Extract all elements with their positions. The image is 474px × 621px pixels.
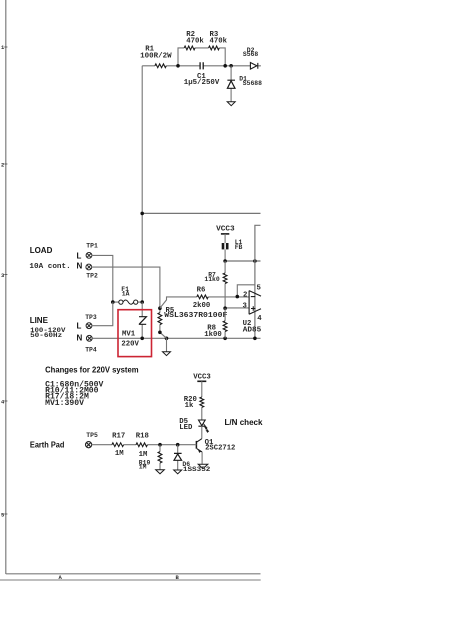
svg-text:R6: R6 bbox=[197, 286, 206, 294]
varistor MV1 bbox=[141, 302, 143, 338]
svg-text:MV1:390V: MV1:390V bbox=[45, 399, 84, 408]
border row tick 4 bbox=[4, 400, 7, 402]
border bottom inner line bbox=[6, 573, 261, 575]
svg-text:1M: 1M bbox=[139, 464, 147, 471]
svg-text:Changes for 220V system: Changes for 220V system bbox=[45, 365, 139, 374]
node dots rail261 bbox=[223, 259, 256, 263]
wire L1 to rail261 bbox=[224, 249, 226, 261]
svg-text:1A: 1A bbox=[122, 290, 130, 297]
svg-text:TP1: TP1 bbox=[86, 242, 98, 249]
diode D1 with wire bbox=[230, 66, 232, 102]
svg-text:1µ5/250V: 1µ5/250V bbox=[184, 79, 220, 87]
svg-text:10A cont.: 10A cont. bbox=[29, 263, 70, 271]
wire R2R3 upper branch bbox=[178, 48, 225, 66]
LED D5 bbox=[198, 420, 205, 426]
svg-text:100R/2W: 100R/2W bbox=[140, 53, 172, 61]
svg-text:220V: 220V bbox=[121, 341, 139, 349]
svg-text:470k: 470k bbox=[186, 37, 204, 45]
ground under D6 bbox=[174, 470, 182, 474]
svg-text:LED: LED bbox=[179, 424, 193, 432]
terminal TP2 bbox=[86, 264, 92, 270]
power VCC3 (lower) bbox=[197, 380, 206, 382]
svg-text:VCC3: VCC3 bbox=[193, 373, 211, 381]
svg-text:4: 4 bbox=[257, 315, 262, 323]
svg-text:470k: 470k bbox=[210, 37, 228, 45]
resistor R20 with leads bbox=[201, 381, 203, 420]
fuse F1 bbox=[113, 301, 142, 303]
wire left vertical from R1 down to fuse bbox=[141, 66, 143, 302]
emitter arrow Q1 bbox=[198, 450, 201, 453]
svg-text:R18: R18 bbox=[136, 432, 149, 440]
svg-text:Earth Pad: Earth Pad bbox=[30, 441, 65, 450]
border row tick 2 bbox=[4, 163, 7, 165]
node dot feedback bbox=[236, 295, 240, 299]
svg-text:5: 5 bbox=[257, 285, 261, 293]
resistor R19 with leads bbox=[159, 445, 161, 470]
svg-text:TP2: TP2 bbox=[86, 272, 98, 279]
terminal TP3 bbox=[86, 323, 92, 329]
wire main top rail bbox=[142, 65, 261, 67]
wire pin3 bbox=[225, 307, 249, 309]
resistor R18 bbox=[136, 443, 147, 447]
resistor R6 bbox=[197, 295, 208, 299]
wire TP3 up to fuse bbox=[92, 302, 113, 326]
wire N rail y338 bbox=[92, 337, 260, 339]
svg-text:N: N bbox=[77, 333, 83, 342]
border row tick 5 bbox=[4, 513, 7, 515]
svg-text:1M: 1M bbox=[139, 451, 148, 459]
node junction dots top rail bbox=[176, 64, 233, 68]
svg-text:TP3: TP3 bbox=[85, 314, 97, 321]
power VCC3 (upper) bbox=[221, 233, 229, 235]
wire Q1 emitter to ground bbox=[201, 452, 203, 464]
resistor R1 bbox=[155, 64, 166, 68]
svg-text:LINE: LINE bbox=[30, 316, 49, 325]
svg-text:VCC3: VCC3 bbox=[216, 225, 235, 233]
svg-text:TP4: TP4 bbox=[85, 346, 97, 353]
red highlight box 220V bbox=[118, 310, 152, 357]
node dots N rail bbox=[140, 337, 256, 341]
svg-text:2SC2712: 2SC2712 bbox=[205, 444, 235, 452]
wire R6 net / pin2 bbox=[160, 297, 249, 308]
wire VCC3 to L1 bbox=[224, 234, 226, 243]
border row tick 3 bbox=[4, 274, 7, 276]
shunt resistor R5 bbox=[160, 308, 167, 338]
svg-text:3: 3 bbox=[243, 302, 248, 310]
svg-text:1SS352: 1SS352 bbox=[183, 466, 211, 473]
svg-text:LOAD: LOAD bbox=[30, 246, 53, 255]
svg-text:N: N bbox=[77, 261, 83, 270]
resistor R3 bbox=[209, 46, 220, 50]
svg-text:L: L bbox=[77, 322, 82, 331]
svg-text:50-60Hz: 50-60Hz bbox=[30, 332, 62, 339]
border row tick 1 bbox=[4, 46, 7, 48]
capacitor C1 bbox=[200, 62, 203, 69]
wire mid rail bbox=[142, 212, 260, 214]
wire feedback pin5 bbox=[237, 285, 255, 297]
resistor R17 bbox=[112, 443, 124, 447]
svg-text:11k0: 11k0 bbox=[204, 276, 220, 283]
node dots fuse bbox=[111, 300, 144, 304]
svg-text:2: 2 bbox=[243, 291, 247, 299]
wire D5 to Q1 collector bbox=[201, 426, 203, 439]
svg-text:1M: 1M bbox=[115, 450, 124, 458]
terminal TP1 bbox=[86, 253, 92, 259]
border left line bbox=[5, 0, 7, 574]
ground stub on N rail bbox=[166, 338, 168, 351]
svg-text:1k: 1k bbox=[185, 402, 194, 410]
resistor R2 bbox=[184, 46, 195, 50]
svg-text:AD85: AD85 bbox=[243, 326, 261, 334]
svg-text:R17: R17 bbox=[112, 432, 125, 440]
terminal TP4 bbox=[86, 335, 92, 341]
resistor R7 with leads bbox=[224, 261, 226, 308]
wire TP1 to fuse bbox=[92, 255, 113, 302]
svg-text:S568: S568 bbox=[243, 51, 259, 58]
wire TP2 to R5 top bbox=[92, 267, 160, 308]
node dot pin3/R7/R8 bbox=[223, 306, 227, 310]
ground under Q1 bbox=[198, 464, 208, 468]
svg-text:WSL3637R0100F: WSL3637R0100F bbox=[164, 312, 227, 320]
op-amp U2 bbox=[249, 291, 261, 315]
transistor Q1 bbox=[196, 439, 202, 452]
node dots R5 bbox=[158, 306, 162, 334]
diode D6 with wires bbox=[177, 445, 179, 470]
terminal TP5 earth pad bbox=[86, 442, 92, 448]
svg-text:1k00: 1k00 bbox=[204, 331, 222, 339]
resistor R8 bbox=[224, 308, 226, 338]
wire right bracket from edge bbox=[255, 225, 261, 338]
wire TP5 to base bbox=[92, 444, 197, 446]
ferrite bead L1 bbox=[222, 243, 229, 249]
svg-text:2: 2 bbox=[1, 162, 4, 169]
svg-text:S5688: S5688 bbox=[243, 80, 262, 87]
node dots base wire bbox=[158, 443, 179, 447]
svg-text:L: L bbox=[77, 251, 82, 260]
svg-text:MV1: MV1 bbox=[122, 330, 136, 338]
ground under R19 bbox=[156, 470, 165, 474]
svg-text:L/N check: L/N check bbox=[225, 418, 264, 427]
border bottom outer line bbox=[0, 579, 261, 581]
svg-text:TP5: TP5 bbox=[86, 432, 98, 439]
node junction dot mid rail bbox=[140, 212, 144, 216]
svg-text:2k00: 2k00 bbox=[193, 302, 211, 310]
ground under D1 bbox=[227, 102, 235, 106]
svg-text:FB: FB bbox=[235, 244, 243, 251]
wire rail y261 bbox=[225, 260, 260, 262]
diode D2 bbox=[250, 63, 257, 70]
